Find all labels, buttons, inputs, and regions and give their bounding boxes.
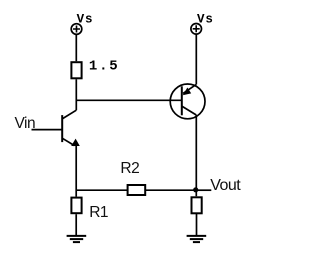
power terminal Vs (left): [71, 24, 82, 35]
svg-text:R1: R1: [89, 204, 108, 221]
wire Vin to Q1 base: [32, 129, 63, 131]
svg-text:Vin: Vin: [15, 115, 36, 132]
ground (left): [67, 236, 87, 242]
wire node A to PNP base: [76, 99, 182, 101]
wire left node to R2: [76, 189, 127, 191]
transistor Q2 (PNP) collector lead: [182, 106, 197, 115]
transistor Q1 (left BJT) emitter lead with arrow: [62, 138, 74, 145]
transistor Q1 (left BJT) collector lead: [62, 110, 76, 119]
resistor (right, load): [192, 197, 202, 213]
transistor Q1 (left BJT) base bar: [61, 115, 63, 142]
wire R1 to ground (left): [75, 214, 77, 235]
power terminal Vs (right): [191, 24, 202, 35]
wire R2 to node Vout: [146, 189, 197, 191]
wire resistor 1.5 to node A (collector / PNP base feed): [75, 79, 77, 110]
resistor R2: [128, 185, 146, 195]
junction dot at node Vout: [193, 187, 198, 192]
wire Vs(left) to resistor 1.5: [75, 34, 77, 61]
transistor Q2 (PNP) base bar: [181, 86, 183, 115]
svg-text:R2: R2: [120, 160, 139, 177]
wire load resistor to ground (right): [196, 213, 198, 235]
transistor Q2 (PNP) body circle: [170, 84, 205, 119]
wire Vs(right) to Q2 emitter: [195, 34, 197, 84]
wire stub to Vout label: [196, 189, 211, 191]
wire Q2 collector to node Vout: [195, 115, 197, 196]
svg-text:Vout: Vout: [210, 177, 241, 194]
ground (right): [187, 236, 207, 242]
resistor 1.5: [71, 62, 81, 78]
svg-text:1.5: 1.5: [89, 58, 120, 74]
svg-text:Vs: Vs: [197, 13, 214, 27]
resistor R1: [71, 198, 81, 214]
wire Q1 emitter to node Vout-left / R1: [75, 146, 77, 197]
svg-text:Vs: Vs: [77, 13, 94, 27]
transistor Q2 (PNP) emitter lead with arrow: [183, 84, 196, 93]
